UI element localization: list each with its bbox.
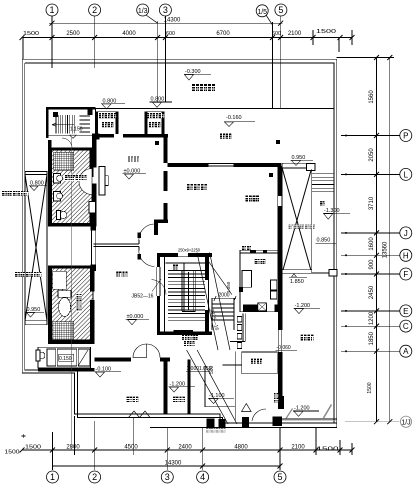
central stair — [157, 253, 212, 335]
right light-well X box — [282, 163, 312, 273]
bedroom1 walls — [92, 134, 168, 235]
svg-text:C: C — [403, 322, 409, 331]
svg-text:5: 5 — [278, 5, 283, 15]
leader bubble 10b — [266, 15, 273, 25]
top ticks — [20, 21, 355, 40]
hatch block A (upper WC) — [52, 150, 92, 223]
svg-text:H: H — [403, 251, 409, 260]
svg-text:13560: 13560 — [382, 241, 388, 258]
boundary gate triangles left — [129, 411, 151, 418]
svg-text:1500: 1500 — [23, 31, 39, 37]
svg-text:0.950: 0.950 — [27, 307, 41, 313]
svg-text:-0.300: -0.300 — [185, 69, 201, 75]
svg-text:0.800: 0.800 — [103, 98, 117, 104]
up char — [320, 201, 325, 206]
svg-text:-0.160: -0.160 — [226, 115, 242, 121]
south wall of bedroom2 — [95, 358, 171, 362]
svg-text:0.800: 0.800 — [30, 180, 44, 186]
top dim line segments — [23, 37, 352, 39]
svg-text:4500: 4500 — [124, 445, 138, 451]
svg-text:±0.000: ±0.000 — [124, 168, 141, 174]
svg-text:2100: 2100 — [291, 445, 305, 451]
svg-text:2400: 2400 — [178, 445, 192, 451]
svg-text:2800: 2800 — [66, 445, 80, 451]
svg-text:900: 900 — [369, 259, 375, 270]
bedroom2 door arc to stair — [152, 280, 167, 295]
flue shaft box — [258, 303, 267, 311]
bedroom1 — [128, 156, 133, 161]
living/dining top wall — [167, 163, 281, 167]
long interior extension line — [71, 137, 73, 450]
gray lightwell left strip 2 — [15, 272, 20, 277]
svg-text:-0.100: -0.100 — [96, 366, 112, 372]
svg-text:1200: 1200 — [369, 311, 375, 325]
green left — [126, 397, 132, 403]
svg-text:1/5: 1/5 — [257, 9, 267, 16]
svg-text:1850: 1850 — [369, 331, 375, 345]
svg-text:1500: 1500 — [5, 450, 20, 456]
top-left stair block walls — [46, 107, 96, 138]
site boundary inner — [25, 63, 334, 428]
svg-text:4: 4 — [200, 472, 205, 482]
garage — [301, 335, 307, 341]
svg-text:2500: 2500 — [66, 31, 80, 37]
pillar at garage top right — [329, 270, 337, 276]
platform 平台 — [220, 134, 225, 139]
kitchen — [240, 250, 281, 311]
east exterior wall — [278, 167, 283, 273]
left light-well strip — [25, 172, 47, 325]
svg-text:5: 5 — [277, 472, 282, 482]
divider wall left green box — [164, 361, 168, 414]
svg-text:F: F — [403, 270, 408, 279]
svg-text:±0.000: ±0.000 — [127, 314, 144, 320]
grid leader lines — [341, 135, 400, 137]
svg-text:-1.200: -1.200 — [295, 303, 311, 309]
svg-text:-1.200: -1.200 — [170, 381, 186, 387]
WC fixtures lower — [53, 271, 71, 316]
gray small text bottom center — [206, 428, 210, 432]
lightwell room2 — [147, 113, 152, 118]
svg-text:4000: 4000 — [122, 31, 136, 37]
patio -1.100 box — [205, 351, 235, 421]
lightwell room1 — [99, 113, 104, 118]
WC text on lower hatch — [76, 293, 82, 312]
svg-text:2: 2 — [92, 472, 97, 482]
svg-text:L: L — [404, 170, 409, 179]
svg-text:3: 3 — [165, 472, 170, 482]
top-left stair treads — [48, 108, 96, 135]
top grid bubbles — [46, 4, 287, 17]
inner dim line — [376, 58, 378, 423]
grid extension lines top — [51, 16, 53, 68]
svg-text:1: 1 — [50, 472, 55, 482]
svg-text:1500: 1500 — [367, 382, 373, 393]
svg-text:1500: 1500 — [316, 29, 336, 35]
WC text on upper hatch — [64, 174, 88, 181]
kitchen — [255, 259, 260, 264]
svg-text:1560: 1560 — [369, 90, 375, 104]
svg-text:2050: 2050 — [369, 148, 375, 162]
bottom extension lines — [52, 432, 54, 470]
svg-text:P: P — [403, 132, 408, 141]
X box bottom beam — [282, 270, 312, 274]
meter boxes column — [237, 317, 241, 349]
platform top line — [46, 107, 334, 109]
bottom-left small tick — [22, 434, 26, 438]
planter box below kitchen — [242, 352, 278, 374]
walkway steps outside stair — [212, 298, 234, 330]
top extension — [337, 57, 394, 59]
garage gate — [282, 419, 337, 421]
right ticks — [374, 55, 392, 424]
svg-text:J: J — [404, 229, 408, 238]
wall below kitchen — [230, 314, 245, 342]
svg-text:1600: 1600 — [369, 237, 375, 251]
svg-text:2100: 2100 — [288, 31, 302, 37]
light-well room 2 — [145, 112, 164, 136]
svg-text:600: 600 — [166, 31, 175, 37]
svg-text:4800: 4800 — [234, 445, 248, 451]
svg-text:250x9=2250: 250x9=2250 — [178, 248, 200, 253]
section flags bottom — [207, 416, 283, 428]
entrance double door arcs — [133, 344, 147, 358]
svg-text:3710: 3710 — [369, 196, 375, 210]
svg-text:14300: 14300 — [164, 18, 181, 24]
washroom row — [36, 347, 91, 368]
svg-text:-1.200: -1.200 — [294, 406, 310, 412]
svg-text:JB52—16: JB52—16 — [132, 294, 154, 300]
section diagonals — [187, 252, 237, 424]
svg-text:3: 3 — [163, 5, 168, 15]
svg-text:-1.100: -1.100 — [209, 393, 225, 399]
green rotated right — [274, 393, 279, 398]
svg-text:1/3: 1/3 — [138, 8, 148, 15]
right entry stair — [312, 169, 335, 192]
outer dim line — [389, 58, 391, 423]
kitchen top blobs — [242, 246, 246, 250]
site boundary outer — [22, 59, 337, 427]
cabinet between hatch and bedroom1 — [99, 167, 105, 196]
dining — [245, 195, 251, 201]
WC fixtures upper — [54, 174, 96, 220]
light-well room 1 — [95, 112, 118, 136]
leader bubble 10a — [146, 15, 158, 23]
svg-text:1/J: 1/J — [401, 420, 410, 427]
door arc into bedroom1 — [79, 169, 92, 195]
svg-text:1500: 1500 — [25, 445, 41, 451]
svg-text:1: 1 — [49, 5, 54, 15]
svg-text:2450: 2450 — [369, 285, 375, 299]
svg-text:2: 2 — [92, 5, 97, 15]
svg-text:1.150: 1.150 — [70, 127, 83, 133]
svg-text:1500: 1500 — [317, 447, 339, 453]
svg-text:-1.300: -1.300 — [324, 208, 340, 214]
lightwell label below stair — [182, 335, 187, 340]
svg-text:A: A — [403, 347, 409, 356]
svg-text:600: 600 — [272, 31, 281, 37]
back garden 后花园 — [192, 84, 199, 91]
bedroom divider wall + double doors — [94, 224, 155, 267]
X box corner pillar — [307, 163, 316, 170]
gray lightwell right X box — [289, 224, 294, 229]
svg-text:0.950: 0.950 — [292, 155, 306, 161]
right dim texts rotated — [367, 90, 388, 394]
svg-text:6700: 6700 — [216, 31, 230, 37]
svg-text:-0.060: -0.060 — [277, 345, 291, 351]
svg-text:14300: 14300 — [165, 461, 182, 467]
svg-text:0.800: 0.800 — [151, 97, 165, 103]
hatch block B (lower WC) — [51, 268, 93, 341]
down char — [173, 264, 178, 269]
gray lightwell left strip 1 — [2, 191, 7, 196]
svg-text:1.050: 1.050 — [226, 281, 231, 293]
landing door arc above hatch A — [62, 138, 72, 148]
1.850 level at garage top — [292, 274, 297, 277]
bedroom2 left wall — [90, 223, 95, 271]
top dim line overall — [49, 22, 283, 24]
right grid bubbles — [400, 130, 412, 358]
bedroom2 — [116, 271, 121, 276]
svg-text:1.850: 1.850 — [290, 279, 304, 285]
top dim texts — [23, 18, 336, 38]
living room — [187, 184, 193, 190]
green mid — [251, 359, 256, 364]
svg-text:0.850: 0.850 — [317, 238, 331, 244]
2000 leader diagonal — [205, 256, 232, 295]
garage — [278, 273, 282, 402]
column dots — [155, 140, 280, 177]
svg-text:E: E — [403, 307, 408, 316]
